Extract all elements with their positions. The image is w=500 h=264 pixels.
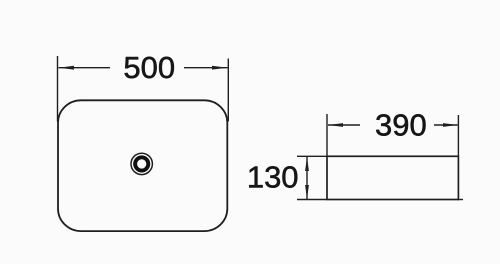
dim 130 vertical line: [306, 157, 308, 200]
basin top view outline: [58, 100, 227, 231]
dim 390 left arrow: [328, 123, 343, 127]
dim 390 left extension line: [326, 114, 328, 156]
dim 500 left extension line: [57, 56, 59, 122]
dim 130 top extension line: [297, 155, 327, 157]
dim 130 up arrow: [305, 157, 309, 171]
dim 390 right extension line: [457, 115, 459, 156]
svg-text:130: 130: [247, 160, 299, 195]
dim 500 left arrow: [59, 66, 75, 70]
dim 130 down arrow: [305, 185, 309, 199]
side rect bottom-right overshoot: [458, 199, 463, 201]
dim 130 bottom extension line: [297, 199, 327, 201]
dim 500 line left segment: [59, 67, 111, 69]
svg-text:390: 390: [375, 107, 427, 142]
dim 390 right arrow: [443, 123, 458, 127]
svg-text:500: 500: [123, 50, 175, 85]
drain inner ring: [135, 157, 148, 170]
dim 500 line right segment: [184, 67, 228, 69]
dim 500 right arrow: [212, 66, 228, 70]
side view rectangle: [327, 156, 458, 199]
dim 390 line right segment: [434, 124, 458, 126]
dim 390 line left segment: [328, 124, 360, 126]
dim 500 right extension line: [227, 59, 229, 122]
drain outer circle: [131, 153, 152, 174]
